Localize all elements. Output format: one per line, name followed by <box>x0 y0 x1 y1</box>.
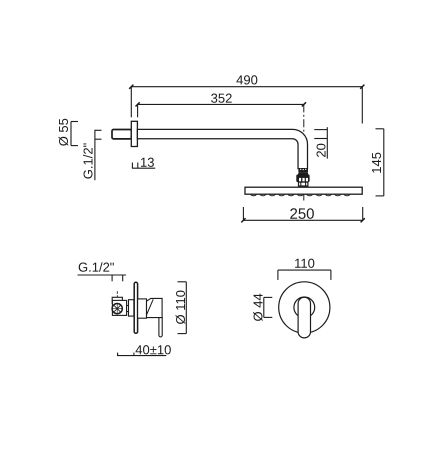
mixer valve body upper block <box>112 297 122 303</box>
wall thread stub G.1/2 <box>112 130 131 139</box>
mixer cartridge housing <box>129 300 134 316</box>
svg-text:Ø 110: Ø 110 <box>173 290 188 324</box>
svg-text:145: 145 <box>369 152 384 174</box>
connector nut: taper ring <box>298 172 309 174</box>
svg-text:110: 110 <box>294 256 315 271</box>
mixer valve body main block <box>112 300 126 315</box>
centerline of drop pipe and shower head <box>303 104 305 200</box>
label G.1/2 top leader <box>95 130 102 180</box>
shower head nozzles <box>251 194 354 196</box>
dimension D55 bracket <box>71 122 78 146</box>
front view handle base circle D44 <box>294 297 315 318</box>
dimension 250 <box>241 207 364 222</box>
dimension 490 line <box>129 85 364 124</box>
mixer inlet port hatch <box>114 305 121 312</box>
mixer wall plate side view <box>134 282 137 333</box>
connector nut: main hex nut <box>296 175 309 183</box>
dimension 145 bracket <box>376 129 384 196</box>
svg-text:G.1/2": G.1/2" <box>81 142 96 179</box>
dimension 352 line <box>136 102 307 117</box>
svg-text:40±10: 40±10 <box>135 342 171 357</box>
mixer handle lever bar <box>159 318 162 337</box>
svg-text:G.1/2": G.1/2" <box>78 260 115 275</box>
mixer centerline above inlet <box>116 291 118 297</box>
mixer handle lever inner line <box>147 299 154 314</box>
mixer inlet port center cross <box>112 303 123 314</box>
wall flange <box>131 121 137 146</box>
svg-text:250: 250 <box>289 206 314 223</box>
dimension 40+-10 <box>117 353 166 356</box>
dimension D44 bracket <box>264 297 273 317</box>
dimension 13 <box>132 163 155 169</box>
connector nut: threaded band <box>298 168 308 172</box>
svg-text:Ø 55: Ø 55 <box>56 118 71 146</box>
svg-text:13: 13 <box>140 155 154 170</box>
front view handle lever <box>298 297 310 338</box>
label G.1/2 bottom leader <box>78 275 127 281</box>
mixer escutcheon base <box>138 299 147 318</box>
front view outer plate circle <box>279 282 330 333</box>
svg-text:352: 352 <box>211 91 233 106</box>
shower head slab <box>245 187 362 194</box>
mixer handle hub <box>147 298 163 317</box>
dimension 20 <box>314 127 327 158</box>
connector nut: lower collar <box>299 182 308 186</box>
dimension 110 front <box>278 270 331 280</box>
dimension D110 bracket <box>178 282 187 334</box>
mixer inlet port circle <box>112 304 122 314</box>
svg-text:Ø 44: Ø 44 <box>251 293 266 321</box>
svg-text:490: 490 <box>236 72 258 87</box>
mixer connector stub <box>127 306 129 312</box>
svg-text:20: 20 <box>314 143 329 157</box>
shower arm tube with elbow <box>137 129 307 168</box>
